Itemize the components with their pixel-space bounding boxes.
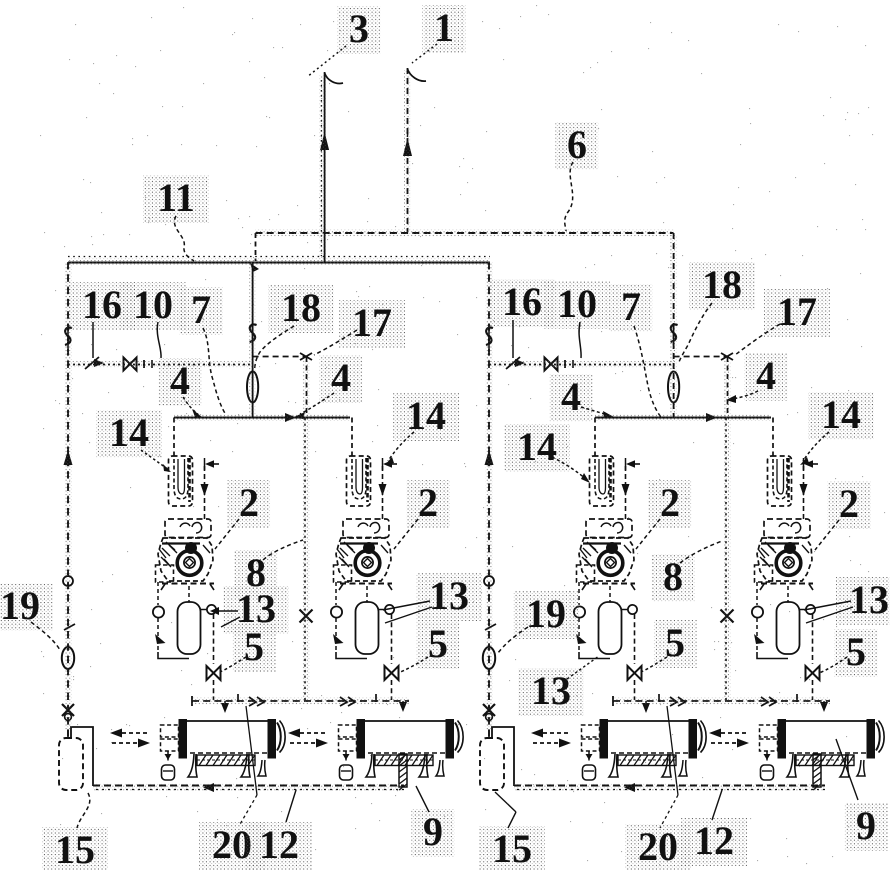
label 5 unit 1 (left) [233,624,276,672]
evaporator 9 shell (system A unit 1) [185,720,270,722]
accumulator outlet pipe down (system B unit 2) [812,614,814,664]
accumulator 13 (system A unit 1) [178,602,201,654]
svg-text:14: 14 [517,424,557,469]
svg-text:10: 10 [557,281,597,326]
pipe 3 (water outlet pipe), vertical [320,80,322,256]
distribution manifold pipe, horizontal dashed (left system) [192,700,409,702]
compressor 2 motor dark boss (system B unit 1) [606,542,618,554]
svg-text:17: 17 [777,289,817,334]
svg-text:2: 2 [839,481,859,526]
svg-text:9: 9 [423,809,443,854]
muffler 14 U-tube (system A unit 2) [352,458,366,499]
svg-text:16: 16 [82,282,122,327]
chilled water in arrow, evaporator 2 (right system) [711,742,737,744]
compressor 2 terminal scribble (system B unit 1) [601,523,623,533]
accumulator 13 (system B unit 1) [599,602,622,654]
svg-text:5: 5 [428,621,448,666]
label 12 (left) [246,822,312,870]
label 8 (left) [235,550,278,598]
oil pot under evaporator (system B unit 1) [588,751,590,763]
valve X on boundary pipe (left system) [62,704,74,716]
junction tick at pipe 11 / riser [250,263,259,272]
leader 8 (left) [263,540,303,560]
leader 7 (right) [634,326,661,417]
chevrons on distribution manifold (right system) [670,697,685,706]
chilled water out arrow, evaporator 1 (left system) [122,732,150,734]
compressor 2 motor dark boss (system B unit 2) [784,542,796,554]
oil line lower segment (system A unit 2) [335,618,337,652]
liquid boundary pipe, vertical dashed (right system) [488,262,490,738]
evaporator water boxes (system B unit 2) [760,725,778,737]
leader 4 right branch (left system) [300,393,334,414]
leader 9 (left) [416,786,429,812]
valve X on boundary pipe (right system) [483,704,495,716]
junction 17 fitting (left system) [300,353,312,360]
label 20 (right) [625,824,691,872]
label 13 unit 1 (left) [223,586,289,634]
leader 8 (right) [680,541,722,563]
label 13 unit 1 (right) [518,668,584,716]
leader 14 unit 2 (left) [388,432,414,461]
evaporator legs (system B unit 1) [609,754,618,777]
leader 2 unit 1 (left) [215,519,239,549]
pipe valve 5 to distribution manifold (system B unit 2) [812,680,814,700]
leader 19 (right) [498,627,528,653]
header pipe 6, horizontal dashed [256,232,674,234]
leader 5 unit 1 (right) [641,657,667,672]
leader 12 (right) [712,790,722,820]
arrow into muffler (system B unit 1) [626,460,635,468]
leader 14 unit 1 (left) [141,450,169,470]
label 7 (left) [180,287,223,335]
leader line for label 3 [307,46,346,77]
discharge pipe from compressor head (system B unit 2) [803,466,805,519]
svg-text:13: 13 [429,573,469,618]
label 5 unit 2 (left) [417,621,460,669]
leader 2 unit 1 (right) [636,519,660,549]
label 15 (right) [479,826,545,874]
leader 16 (right) [512,320,514,358]
liquid line 8, vertical (left system) [306,357,308,418]
sight glass 19 on boundary pipe (right system) [483,647,495,669]
label 13 unit 2 (right) [836,577,890,625]
discharge muffler 14 box (system A unit 1) [169,456,193,506]
oil line circle fitting (system A unit 1) [153,606,164,617]
label 9 (left) [412,809,455,857]
valve X on liquid line 8 (right system) [721,610,734,623]
label 20 (left) [199,822,265,870]
compressor 2 terminal scribble (system A unit 1) [180,523,202,533]
pipe 1 (water return pipe), vertical dashed [407,68,409,232]
muffler 14 U-tube (system A unit 1) [174,458,188,499]
muffler 14 U-tube (system B unit 2) [773,458,787,499]
leader 5 unit 2 (left) [398,657,428,673]
leader 13 unit 2 (left) [383,601,430,610]
bottom return pipe 12 (right system) [514,785,825,787]
evaporator legs (system A unit 1) [188,754,197,777]
label 18 (right) [689,262,755,310]
label 4 left branch (left system) [159,358,202,406]
svg-text:19: 19 [0,583,40,628]
compressor 2 scroll circle (system A unit 1) [177,551,202,576]
tick on distribution manifold (left system) [237,694,239,702]
expansion valve 5 (system A unit 2) [385,666,399,680]
arrow into muffler (system A unit 1) [205,460,214,468]
compressor oil box (system B unit 1) [577,565,595,582]
compressor 2 body (system A unit 1) [158,538,213,581]
oil line from compressor (system A unit 2) [335,582,337,605]
label 16 (left) [69,282,135,330]
oil line lower segment (system B unit 2) [756,618,758,652]
svg-text:7: 7 [191,287,211,332]
oil line circle fitting (system B unit 2) [752,606,763,617]
svg-text:6: 6 [567,122,587,167]
leader 5 unit 1 (left) [220,657,246,672]
label 13 unit 2 (left) [416,573,482,621]
svg-text:19: 19 [526,591,566,636]
branch pipe 4 drop into muffler (system B unit 2) [772,418,774,459]
suction drop compressor to accumulator (system B unit 1) [609,586,611,602]
oil line from compressor (system B unit 2) [756,582,758,605]
discharge muffler 14 box (system A unit 2) [347,456,371,506]
svg-text:7: 7 [621,284,641,329]
label 4 right branch (right system) [745,353,788,401]
evaporator 9 shell (system B unit 2) [784,720,869,722]
branch pipe to junction 17, horizontal dashed (left system) [253,356,308,358]
compressor 2 terminal box (system B unit 1) [586,519,632,538]
accumulator 13 (system B unit 2) [777,602,800,654]
discharge pipe from compressor head (system A unit 2) [382,466,384,519]
arrow into muffler (system A unit 2) [383,460,392,468]
chilled water out arrow, evaporator 2 (right system) [721,732,749,734]
leader line for label 6 [565,162,573,231]
label 8 (right) [652,554,695,602]
evaporator legs (system A unit 2) [366,754,375,777]
svg-text:4: 4 [756,353,776,398]
pipe valve 5 to distribution manifold (system B unit 1) [634,680,636,700]
chevrons 2 on distribution manifold (right system) [761,697,776,706]
evaporator water boxes (system A unit 1) [161,725,179,737]
oil line from compressor (system B unit 1) [578,582,580,605]
down arrow into evaporator 2 (left system) [399,702,407,712]
flow arrow on boundary pipe (right system) [485,450,494,465]
receiver tank 15 (left system) [59,738,83,790]
svg-text:12: 12 [694,818,734,863]
flow arrow on pipe 1 [403,138,412,156]
leader 10 (left) [157,322,161,358]
branch pipe to junction 17, horizontal dashed (right system) [674,356,729,358]
arrow into muffler (system B unit 2) [804,460,813,468]
leader 15 (left) [77,793,90,828]
svg-text:10: 10 [133,282,173,327]
svg-text:9: 9 [856,803,876,848]
svg-text:18: 18 [702,262,742,307]
leader 5 unit 2 (right) [819,657,847,673]
hatched riser at end of return pipe (left system) [399,754,407,787]
leader 17 (left) [314,330,357,355]
svg-text:20: 20 [638,824,678,869]
compressor 2 base line (system A unit 1) [162,583,214,585]
expansion valve 5 (system B unit 1) [628,666,642,680]
bottom return pipe 12 (left system) [93,785,404,787]
svg-text:5: 5 [846,629,866,674]
subcooler 20 hatched strip (system B unit 2) [796,755,854,766]
muffler 14 U-tube (system B unit 1) [595,458,609,499]
compressor 2 body (system B unit 2) [757,538,812,581]
label 12 (right) [681,818,747,866]
leader line for label 11 [174,216,194,261]
arrow on bottom return pipe (right system) [624,783,635,792]
receiver tank 15 (right system) [480,738,504,790]
compressor oil box (system B unit 2) [755,565,773,582]
expansion valve on 16/10 pipe (left system) [124,358,137,371]
svg-text:2: 2 [418,480,438,525]
leader 4 left branch (right system) [581,407,608,415]
subcooler 20 hatched strip (system B unit 1) [618,755,676,766]
suction drop compressor to accumulator (system A unit 1) [188,586,190,602]
leader 13 unit 1 (right) [567,656,599,679]
label 19 (left) [0,583,53,631]
subcooler 20 hatched strip (system A unit 2) [375,755,433,766]
label 4 left branch (right system) [550,374,593,422]
down arrow on discharge pipe (system A unit 1) [201,484,209,496]
down arrow into evaporator 1 (right system) [642,703,650,713]
label 2 unit 2 (right) [828,481,871,529]
shut-off valve on riser (right system) [671,325,678,342]
compressor 2 body (system A unit 2) [336,538,391,581]
expansion valve 5 (system A unit 1) [207,666,221,680]
compressor 2 body (system B unit 1) [579,538,634,581]
svg-text:17: 17 [352,300,392,345]
label 17 (left) [339,300,405,348]
discharge muffler 14 box (system B unit 2) [768,456,792,506]
branch pipe 4 drop into muffler (system A unit 1) [173,418,175,459]
expansion valve on 16/10 pipe (right system) [545,358,558,371]
down arrow into evaporator 2 (right system) [820,702,828,712]
svg-text:16: 16 [502,279,542,324]
arrow on oil line (system A unit 2) [333,634,344,644]
leader 20 (right) [667,706,678,795]
arrow on oil line (system B unit 1) [576,634,587,644]
compressor oil box (system A unit 1) [156,565,174,582]
tick on distribution manifold (right system) [658,694,660,702]
branch pipe 4 drop into muffler (system B unit 1) [594,418,596,459]
compressor oil box (system A unit 2) [334,565,352,582]
discharge pipe from compressor head (system A unit 1) [204,466,206,519]
evaporator water boxes (system B unit 1) [582,725,600,737]
check valve oval on riser (left system) [247,372,258,403]
leader 9 (right) [836,739,858,800]
drop from pipe 6 to pipe 11 (left end) [255,233,257,261]
chevrons on distribution manifold (left system) [249,697,264,706]
leader 18 (right) [679,303,712,362]
oil line circle fitting (system B unit 1) [574,606,585,617]
accumulator outlet fitting (system B unit 2) [806,605,815,614]
suction manifold pipe 7, horizontal (right system) [595,417,771,419]
leader 4 left branch (left system) [183,397,198,414]
down arrow into evaporator 1 (left system) [221,703,229,713]
leader 13 unit 2 (right) [804,601,851,610]
liquid boundary pipe, vertical dashed (left system) [67,262,69,738]
suction drop compressor to accumulator (system B unit 2) [787,586,789,602]
label 14 unit 1 (left) [96,410,162,458]
compressor 2 base line (system A unit 2) [340,583,392,585]
leader line for label 1 [412,44,437,63]
svg-text:13: 13 [531,668,571,713]
accumulator outlet pipe down (system A unit 2) [391,614,393,664]
oil line lower segment (system A unit 1) [157,618,159,652]
pipe valve 5 to distribution manifold (system A unit 2) [391,680,393,700]
arrow on oil line (system B unit 2) [754,634,765,644]
compressor 2 motor dark boss (system A unit 2) [363,542,375,554]
label 4 right branch (left system) [320,355,363,403]
accumulator 13 (system A unit 2) [356,602,379,654]
shut-off valve on boundary pipe (right system) [486,328,493,345]
svg-text:2: 2 [660,480,680,525]
leader 16 (left) [92,322,94,358]
chilled water in arrow, evaporator 1 (left system) [112,742,138,744]
label 1 [423,5,466,53]
label 18 (left) [268,285,334,333]
leader 14 unit 1 (right) [552,457,587,480]
flow arrow on pipe 3 [320,132,329,150]
label 11 [143,175,209,223]
svg-text:13: 13 [849,577,889,622]
arrow on suction manifold (left system) [285,413,296,422]
evaporator 9 shell (system B unit 1) [606,720,691,722]
svg-text:3: 3 [349,6,369,51]
svg-text:14: 14 [821,392,861,437]
arrow fitting on 16/10 pipe (right system) [506,357,520,369]
arrow on suction manifold (right system) [706,413,717,422]
tick 2 on distribution manifold (left system) [375,694,377,702]
accumulator outlet fitting (system B unit 1) [628,605,637,614]
label 19 (right) [513,591,579,639]
pipe from tank 15 to bottom return line (left system) [71,727,93,786]
leader 13 unit 1 (left) [214,610,238,612]
compressor 2 motor dark boss (system A unit 1) [185,542,197,554]
suction manifold pipe 7, horizontal (left system) [174,417,350,419]
tick 2 on distribution manifold (right system) [796,694,798,702]
chilled water out arrow, evaporator 2 (left system) [300,732,328,734]
shut-off valve on riser (left system) [250,325,257,342]
pipe from tank 15 to bottom return line (right system) [492,727,514,786]
valve X on liquid line 8 (left system) [300,610,313,623]
label 15 (left) [42,827,108,875]
svg-text:4: 4 [561,374,581,419]
tick on boundary pipe (left system) [64,624,75,630]
discharge pipe from compressor head (system B unit 1) [625,466,627,519]
label 14 unit 1 (right) [504,424,570,472]
compressor 2 scroll circle (system B unit 1) [598,551,623,576]
liquid line 8, vertical (right system) [727,357,729,418]
pipe valve 5 to distribution manifold (system A unit 1) [213,680,215,700]
leader 15 (right) [495,792,516,812]
evaporator 9 shell (system A unit 2) [363,720,448,722]
label 3 [338,6,381,54]
down arrow on discharge pipe (system A unit 2) [379,484,387,496]
compressor 2 terminal box (system B unit 2) [764,519,810,538]
leader 20 (left) [246,706,257,795]
header pipe 11, horizontal [68,262,490,264]
compressor 2 terminal box (system A unit 2) [343,519,389,538]
leader 18 (left) [255,326,295,370]
tick on boundary pipe (right system) [485,624,496,630]
label 10 (left) [120,282,186,330]
chilled water in arrow, evaporator 1 (right system) [533,742,559,744]
label 6 [556,122,599,170]
svg-text:14: 14 [406,393,446,438]
label 5 unit 1 (right) [654,620,697,668]
chevrons 2 on distribution manifold (left system) [340,697,355,706]
expansion valve 5 (system B unit 2) [806,666,820,680]
ticks on 16/10 pipe (left system) [143,360,145,368]
svg-text:12: 12 [259,822,299,867]
leader 7 (left) [203,328,226,415]
flow arrow on boundary pipe (left system) [64,450,73,465]
leader 17 (right) [735,324,780,355]
distribution manifold pipe, horizontal dashed (right system) [613,700,830,702]
leader 4 right branch (right system) [732,391,758,399]
oil line circle fitting (system A unit 2) [331,606,342,617]
discharge muffler 14 box (system B unit 1) [590,456,614,506]
liquid distribution pipe 16/10 row, dotted (left system) [68,364,253,366]
svg-text:5: 5 [244,624,264,669]
label 14 unit 2 (left) [393,393,459,441]
leader 2 unit 2 (right) [815,520,839,550]
arrow fitting on 16/10 pipe (left system) [85,357,99,369]
svg-text:15: 15 [492,826,532,870]
oil line from compressor (system A unit 1) [157,582,159,605]
svg-text:1: 1 [434,5,454,50]
chilled water out arrow, evaporator 1 (right system) [543,732,571,734]
down arrow on discharge pipe (system B unit 2) [800,484,808,496]
label 2 unit 1 (left) [228,480,271,528]
label 2 unit 2 (left) [407,480,450,528]
leader 14 unit 2 (right) [803,432,829,461]
small circle fitting on boundary pipe (left system) [63,576,73,586]
shut-off valve on boundary pipe (left system) [65,328,72,345]
svg-text:8: 8 [663,554,683,599]
svg-text:11: 11 [157,175,195,220]
oil pot under evaporator (system A unit 1) [167,751,169,763]
junction 17 fitting (right system) [721,353,733,360]
label 9 (right) [845,803,888,851]
accumulator outlet fitting (system A unit 1) [207,605,216,614]
hatched riser at end of return pipe (right system) [813,754,821,787]
svg-text:15: 15 [55,827,95,870]
leader 12 (left) [286,790,296,822]
svg-text:18: 18 [281,285,321,330]
svg-text:2: 2 [239,480,259,525]
compressor 2 base line (system B unit 1) [583,583,635,585]
suction drop compressor to accumulator (system A unit 2) [366,586,368,602]
label 7 (right) [610,284,653,332]
label 16 (right) [489,279,555,327]
evaporator legs (system B unit 2) [787,754,796,777]
small circle fitting on boundary pipe (right system) [484,576,494,586]
label 5 unit 2 (right) [835,629,878,677]
label 2 unit 1 (right) [649,480,692,528]
label 10 (right) [544,281,610,329]
compressor 2 scroll circle (system A unit 2) [355,551,380,576]
leader 2 unit 2 (left) [394,519,418,549]
discharge riser (right system), dashed from pipe 6 [673,233,675,418]
compressor 2 base line (system B unit 2) [761,583,813,585]
svg-text:14: 14 [109,410,149,455]
label 14 unit 2 (right) [808,392,874,440]
branch pipe 4 drop into muffler (system A unit 2) [351,418,353,459]
